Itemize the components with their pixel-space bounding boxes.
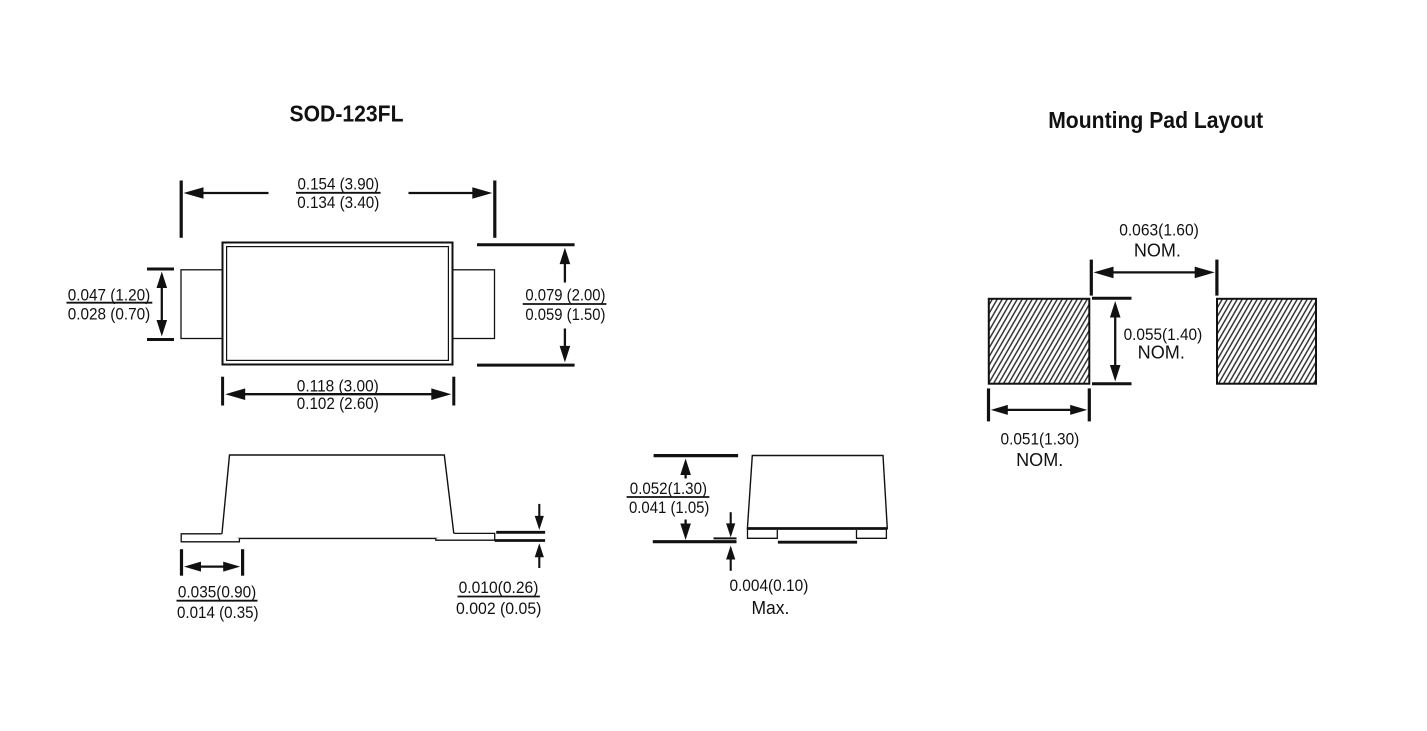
side view left lead bbox=[181, 534, 239, 542]
dim F lower reference line bbox=[495, 539, 545, 542]
dim E fraction bar bbox=[177, 600, 258, 602]
top view right lead tab bbox=[453, 270, 495, 339]
svg-text:0.134 (3.40): 0.134 (3.40) bbox=[297, 194, 379, 212]
dim H lower arrow shaft bbox=[730, 558, 732, 571]
dim A right extension line bbox=[493, 181, 496, 238]
right mounting pad bbox=[1217, 299, 1316, 384]
dim C shaft bbox=[242, 393, 434, 395]
dim G fraction bar bbox=[627, 496, 710, 498]
dim B up arrow bbox=[157, 272, 168, 289]
end view body bottom thick line bbox=[747, 527, 887, 530]
svg-text:NOM.: NOM. bbox=[1134, 241, 1181, 261]
side view body trapezoid bbox=[222, 455, 455, 538]
svg-text:SOD-123FL: SOD-123FL bbox=[290, 100, 404, 126]
svg-text:0.102 (2.60): 0.102 (2.60) bbox=[297, 395, 379, 413]
dim I right arrow bbox=[1195, 267, 1215, 279]
svg-text:0.002 (0.05): 0.002 (0.05) bbox=[456, 600, 541, 618]
svg-text:0.079 (2.00): 0.079 (2.00) bbox=[525, 286, 605, 304]
svg-text:0.051(1.30): 0.051(1.30) bbox=[1001, 430, 1080, 448]
dim A left extension line bbox=[180, 181, 183, 238]
dim F upper arrow shaft bbox=[538, 504, 540, 517]
dim C right arrow bbox=[431, 388, 451, 400]
end view left foot bbox=[748, 529, 778, 539]
dim K shaft bbox=[1006, 409, 1072, 411]
dim K left arrow bbox=[991, 405, 1008, 415]
svg-text:0.059 (1.50): 0.059 (1.50) bbox=[525, 306, 605, 324]
svg-text:0.004(0.10): 0.004(0.10) bbox=[729, 577, 808, 595]
dim E left tick bbox=[180, 549, 183, 576]
dim J shaft bbox=[1114, 315, 1116, 367]
dim G up arrow bbox=[680, 459, 691, 476]
side view right lead bbox=[436, 533, 495, 540]
dim E left arrow bbox=[184, 562, 201, 572]
top view left lead tab bbox=[181, 270, 223, 339]
top view body outer rect bbox=[223, 243, 453, 365]
dim C left arrow bbox=[225, 388, 245, 400]
svg-text:0.118 (3.00): 0.118 (3.00) bbox=[297, 377, 379, 395]
dim G down arrow bbox=[680, 524, 691, 541]
dim E right arrow bbox=[223, 562, 240, 572]
dim G top shaft bbox=[684, 472, 686, 479]
dim C right tick bbox=[452, 377, 455, 406]
dim D bottom extension line bbox=[477, 364, 575, 367]
dim A right arrow bbox=[472, 187, 492, 199]
dim H upper arrow bbox=[726, 523, 735, 537]
end view right foot bbox=[857, 529, 887, 539]
dim G top extension line bbox=[654, 454, 739, 457]
svg-text:Max.: Max. bbox=[751, 598, 789, 618]
dim J up arrow bbox=[1110, 301, 1121, 318]
dim K left tick bbox=[987, 388, 990, 421]
dim E right tick bbox=[241, 549, 244, 576]
dim F fraction bar bbox=[458, 596, 540, 598]
svg-text:0.010(0.26): 0.010(0.26) bbox=[459, 579, 539, 597]
dim B top tick bbox=[147, 268, 174, 271]
dim I shaft bbox=[1110, 271, 1198, 273]
top view body inner rect bbox=[227, 247, 449, 361]
dim J bottom tick bbox=[1092, 382, 1132, 385]
svg-text:NOM.: NOM. bbox=[1016, 450, 1063, 470]
svg-text:Mounting Pad Layout: Mounting Pad Layout bbox=[1048, 107, 1263, 133]
dim B down arrow bbox=[157, 320, 168, 337]
svg-text:0.028 (0.70): 0.028 (0.70) bbox=[68, 306, 151, 324]
left mounting pad bbox=[989, 299, 1090, 384]
dim G bottom shaft bbox=[684, 520, 686, 527]
dim J down arrow bbox=[1110, 365, 1121, 382]
svg-text:0.041 (1.05): 0.041 (1.05) bbox=[629, 499, 709, 517]
svg-text:0.052(1.30): 0.052(1.30) bbox=[630, 480, 707, 498]
svg-text:0.035(0.90): 0.035(0.90) bbox=[178, 584, 256, 602]
dim J top tick bbox=[1092, 297, 1132, 300]
svg-text:0.014 (0.35): 0.014 (0.35) bbox=[177, 604, 259, 622]
dim H reference line bbox=[714, 537, 737, 539]
dim C left tick bbox=[221, 377, 224, 406]
dim A right shaft bbox=[409, 192, 475, 194]
end view body bbox=[747, 456, 887, 529]
dim D top shaft bbox=[564, 262, 566, 283]
dim D up arrow bbox=[560, 248, 571, 265]
dim I right tick bbox=[1215, 260, 1218, 296]
dim I left arrow bbox=[1094, 267, 1114, 279]
dim E shaft bbox=[0, 0, 1, 1]
dim B shaft bbox=[161, 286, 163, 322]
dim G bottom extension line bbox=[653, 540, 737, 543]
dim F lower arrow bbox=[535, 543, 544, 557]
svg-text:0.154 (3.90): 0.154 (3.90) bbox=[298, 175, 380, 193]
dim D down arrow bbox=[560, 346, 571, 363]
dim D bottom shaft bbox=[564, 329, 566, 349]
dim D fraction bar bbox=[523, 303, 607, 305]
svg-text:0.047 (1.20): 0.047 (1.20) bbox=[68, 287, 151, 305]
dim H lower arrow bbox=[726, 546, 735, 560]
dim F upper arrow bbox=[535, 516, 544, 530]
dim F upper reference line bbox=[496, 531, 545, 534]
dim F lower arrow shaft bbox=[538, 556, 540, 568]
dim D top extension line bbox=[477, 243, 575, 246]
dim E shaft line bbox=[199, 565, 225, 567]
svg-text:NOM.: NOM. bbox=[1138, 343, 1185, 363]
dim A fraction bar bbox=[296, 192, 381, 194]
dim B fraction bar bbox=[67, 302, 153, 304]
svg-text:0.063(1.60): 0.063(1.60) bbox=[1119, 222, 1199, 240]
dim B bottom tick bbox=[147, 338, 174, 341]
dim K right arrow bbox=[1070, 405, 1087, 415]
end view center bottom thick line bbox=[778, 541, 857, 544]
dim I left tick bbox=[1090, 260, 1093, 296]
svg-text:0.055(1.40): 0.055(1.40) bbox=[1124, 326, 1203, 344]
dim H upper arrow shaft bbox=[730, 512, 732, 525]
dim A left arrow bbox=[184, 187, 204, 199]
dim A left shaft bbox=[201, 192, 269, 194]
dim K right tick bbox=[1088, 388, 1091, 421]
